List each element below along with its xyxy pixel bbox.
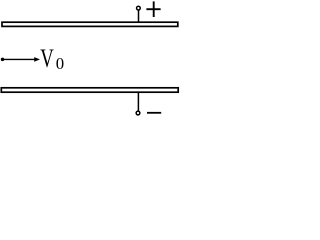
node: dot at arrow start bbox=[1, 58, 5, 62]
label V0 bbox=[40, 44, 64, 73]
wire: bottom terminal stem bbox=[137, 92, 139, 111]
velocity arrow bbox=[3, 58, 36, 60]
top capacitor plate bbox=[2, 22, 178, 26]
wire: top terminal stem bbox=[138, 10, 140, 22]
bottom capacitor plate bbox=[1, 88, 178, 92]
top terminal circle bbox=[137, 6, 141, 10]
bottom terminal circle bbox=[136, 111, 140, 115]
minus sign (-) bbox=[147, 112, 161, 114]
svg-text:0: 0 bbox=[56, 54, 64, 73]
plus sign (+) bbox=[146, 1, 160, 17]
svg-text:V: V bbox=[40, 44, 54, 73]
